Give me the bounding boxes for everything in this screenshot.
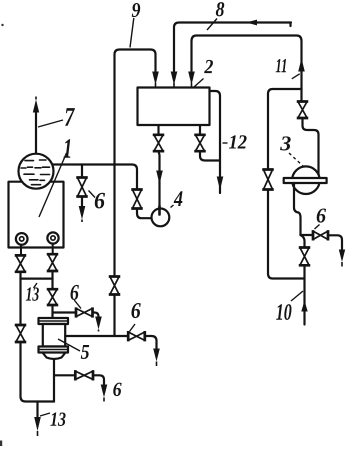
svg-text:6: 6	[70, 280, 80, 305]
svg-text:13: 13	[50, 409, 66, 431]
svg-text:6: 6	[131, 298, 142, 323]
svg-text:11: 11	[275, 55, 287, 77]
svg-text:6: 6	[113, 379, 122, 401]
svg-text:5: 5	[81, 340, 90, 364]
svg-text:6: 6	[316, 203, 327, 227]
svg-text:7: 7	[64, 102, 75, 132]
svg-text:2: 2	[203, 56, 213, 78]
svg-text:9: 9	[132, 0, 141, 22]
svg-text:10: 10	[276, 300, 292, 326]
svg-text:1: 1	[63, 134, 72, 165]
svg-text:6: 6	[94, 188, 105, 214]
svg-text:8: 8	[216, 0, 225, 21]
svg-text:13: 13	[26, 284, 40, 306]
svg-text:12: 12	[228, 132, 247, 154]
svg-text:4: 4	[173, 186, 183, 211]
svg-text:3: 3	[279, 131, 291, 155]
